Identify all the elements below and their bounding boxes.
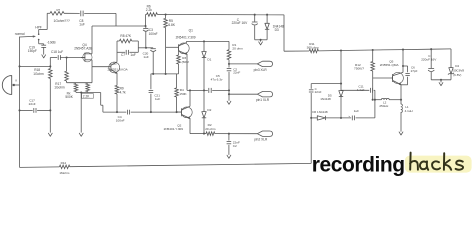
svg-text:150pF: 150pF <box>28 49 37 53</box>
resistor R3 150M <box>178 52 180 55</box>
wire: HPF branch down-left <box>46 13 48 29</box>
svg-text:D4: D4 <box>455 64 459 68</box>
svg-text:R8 47K: R8 47K <box>120 34 132 38</box>
svg-text:220uF 16V: 220uF 16V <box>421 57 437 61</box>
svg-text:6.8K: 6.8K <box>168 23 175 27</box>
svg-text:100nF: 100nF <box>116 118 125 122</box>
logo hacks text <box>409 153 411 170</box>
transistor Q5 2N5551 <box>392 72 403 83</box>
logo hacks highlight <box>405 156 472 173</box>
transistor Q4 2N5457 JFET <box>84 53 86 62</box>
wire: C4 feedback bus <box>103 111 126 113</box>
svg-text:HPF: HPF <box>35 25 42 29</box>
capacitor C8 1uF <box>80 11 82 17</box>
capacitor C18 1uF input coupling <box>49 58 51 67</box>
capacitor C4 100nF <box>126 110 128 115</box>
svg-text:50C6V8: 50C6V8 <box>453 69 464 73</box>
node R6/R5 junction <box>165 13 167 15</box>
wire: Q3 emitter down <box>116 73 118 85</box>
svg-text:Q1: Q1 <box>189 28 193 32</box>
svg-text:4.1uH: 4.1uH <box>405 109 413 113</box>
svg-text:(6.8V): (6.8V) <box>453 73 461 77</box>
wire: capsule signal vertical <box>19 37 21 168</box>
resistor R4 150K <box>176 74 178 88</box>
resistor R6 2.2k <box>145 15 147 27</box>
wire: D6 row <box>311 117 317 119</box>
capacitor C19 150pF pad <box>38 40 40 44</box>
wire: node to C3/C20 <box>138 47 153 49</box>
switch S1 normal/HPF <box>38 33 40 35</box>
wire: C/D3 ground node <box>255 39 267 41</box>
svg-text:2N5401.Y.309: 2N5401.Y.309 <box>164 127 184 131</box>
diode D1 <box>203 41 205 51</box>
wire: bottom ground rail <box>20 166 60 169</box>
svg-text:2N5551.8.KOA: 2N5551.8.KOA <box>108 68 128 72</box>
resistor R12 750K <box>372 50 374 62</box>
svg-text:1uF: 1uF <box>130 53 136 57</box>
svg-text:22nF: 22nF <box>233 71 240 75</box>
wire: pin3 lead <box>229 63 257 65</box>
wire: Q3 collector up <box>116 41 118 62</box>
svg-text:(50M: (50M <box>182 60 189 64</box>
svg-text:R?: R? <box>57 8 61 12</box>
wire: capsule bus to R18/C18 <box>20 65 51 67</box>
wire: pin1 lead <box>228 93 230 95</box>
inductor L1 4.1uH <box>400 100 402 104</box>
transistor Q2 2N5401 <box>181 107 192 118</box>
wire: source resistor top bus <box>67 82 92 84</box>
svg-text:1Gohm???: 1Gohm??? <box>54 19 70 23</box>
svg-text:22nF: 22nF <box>315 90 322 94</box>
ground right <box>439 83 443 86</box>
transistor Q1 2N5401 <box>178 43 189 54</box>
capacitor C12 1uF <box>351 116 353 121</box>
wire: Q2 emitter down <box>189 118 191 133</box>
svg-text:pin3 XLR: pin3 XLR <box>254 68 268 72</box>
svg-text:220uF 16V: 220uF 16V <box>232 21 248 25</box>
wire: phantom feed rail <box>284 50 309 52</box>
wire: base bias bus <box>151 73 179 75</box>
svg-text:C7: C7 <box>121 53 125 57</box>
zener D4 50C6V8 <box>450 49 452 68</box>
resistor R 2.2K <box>86 83 90 91</box>
wire: Q5 collector up <box>402 50 404 73</box>
resistor R5 6.8K <box>165 15 167 19</box>
resistor R9 4.7k <box>115 85 119 94</box>
capacitor C21 1uF <box>150 74 152 89</box>
wire: emitter/R2 wire <box>190 133 206 135</box>
wire: main V+ rail to right <box>166 14 284 16</box>
wire: Q5 emitter down to L1 <box>400 85 402 100</box>
capacitor C2 22nF upper <box>228 64 230 68</box>
ground below C/D3 <box>259 42 263 45</box>
node gate junction dot <box>66 56 68 58</box>
resistor R8 47K collector load <box>119 39 131 43</box>
resistor R2 20 ohm <box>206 132 215 136</box>
wire: main top rail from C8 to R6 node <box>84 12 116 14</box>
ground below source network <box>79 133 83 136</box>
wire: Q1 collector to output node <box>186 41 188 42</box>
svg-text:2N5457.A2B: 2N5457.A2B <box>74 47 92 51</box>
svg-text:D2: D2 <box>207 108 211 112</box>
diode D5 1N4148 <box>339 91 343 97</box>
wire: output ground row <box>431 79 451 81</box>
capacitor C 220uF 16V main filter <box>254 14 256 16</box>
svg-text:150K: 150K <box>179 92 187 96</box>
diode D6 1N4148 <box>317 116 325 120</box>
resistor R-HPF 1Gohm??? top-left <box>50 12 64 16</box>
wire: corner to 22nF cap line <box>311 83 341 85</box>
wire: source network bottom bus <box>75 91 77 94</box>
svg-text:22nF: 22nF <box>29 102 36 106</box>
wire: stepped wire to C4 bus <box>100 93 102 106</box>
svg-text:1uF: 1uF <box>79 23 85 27</box>
capacitor C17 22nF <box>33 108 35 113</box>
svg-text:1Gohm: 1Gohm <box>33 72 44 76</box>
resistor R17 1Gohm gate bias <box>66 58 68 72</box>
ground below pin1 node <box>227 101 231 104</box>
svg-text:47u 6.3v: 47u 6.3v <box>211 77 223 81</box>
capacitor C7 1uF parallel <box>117 51 125 53</box>
svg-text:K: K <box>16 79 18 83</box>
svg-text:250uH: 250uH <box>379 104 388 108</box>
ground below L1 <box>399 132 403 135</box>
svg-text:R14: R14 <box>61 161 67 165</box>
capacitor C11 4.4uF <box>341 89 369 91</box>
resistor Rx 500K <box>74 83 78 91</box>
wire: D5 branch vertical <box>340 51 342 91</box>
svg-text:20 ohm: 20 ohm <box>205 127 216 131</box>
svg-text:D6 1N4148: D6 1N4148 <box>312 110 328 114</box>
svg-text:D3: D3 <box>275 28 279 32</box>
svg-text:2N5551.QMA: 2N5551.QMA <box>380 63 400 67</box>
svg-text:2N5401.Y.309: 2N5401.Y.309 <box>176 35 196 39</box>
wire: vertical join C11/L2/C12 <box>374 90 376 118</box>
transistor Q3 2N5551 <box>109 62 120 73</box>
wire: Q2 collector up to C5 bus <box>189 90 191 106</box>
diode D3 1N4148 <box>266 14 268 16</box>
svg-text:1Mohm: 1Mohm <box>59 171 70 175</box>
diode D2 <box>203 90 205 111</box>
svg-text:recording: recording <box>312 153 405 176</box>
svg-text:1Gohm: 1Gohm <box>54 85 65 89</box>
resistor R18 1Gohm <box>49 66 51 68</box>
resistor R1 20 ohm <box>228 41 230 49</box>
capacitor C3 100nF <box>145 26 147 28</box>
svg-text:750K(?: 750K(? <box>354 67 364 71</box>
wire: C5 bus <box>187 89 208 91</box>
svg-text:1uF: 1uF <box>143 55 148 59</box>
node pin3 junction <box>228 63 230 65</box>
svg-text:pin2 XLR: pin2 XLR <box>254 138 268 142</box>
ground below R18 line <box>48 133 52 136</box>
capacitor C 220uF 16V output <box>430 49 432 68</box>
microphone capsule <box>2 76 11 95</box>
svg-text:1uF: 1uF <box>155 97 160 101</box>
connector pin1 XLR <box>257 92 272 97</box>
svg-text:4.7k: 4.7k <box>120 90 126 94</box>
connector pin3 XLR <box>257 61 272 66</box>
wire: C17 bus <box>20 109 33 111</box>
capacitor C20 1uF <box>152 47 154 49</box>
wire: Q1 emitter down to C5 bus <box>186 54 188 90</box>
svg-text:27pF: 27pF <box>411 69 418 73</box>
wire: Q4 source node <box>91 60 93 67</box>
svg-text:100nF: 100nF <box>149 32 158 36</box>
svg-text:pin1 XLR: pin1 XLR <box>256 98 270 102</box>
svg-text:2.2K: 2.2K <box>83 94 90 98</box>
inductor L2 250uH <box>381 98 389 99</box>
svg-text:Q3: Q3 <box>113 61 117 65</box>
connector pin2 XLR <box>257 131 272 136</box>
capacitor C6 27pF <box>403 65 408 67</box>
svg-text:500K: 500K <box>65 95 73 99</box>
svg-text:2.2k: 2.2k <box>146 8 152 12</box>
capacitor C5 47u 6.3v <box>208 88 210 93</box>
ground below lower C2 <box>227 155 231 158</box>
svg-text:C2: C2 <box>233 144 237 148</box>
ground below C19 <box>42 55 46 58</box>
svg-text:20 ohm: 20 ohm <box>232 47 243 51</box>
capacitor C2 22nF lower <box>228 134 230 141</box>
svg-text:1N4148: 1N4148 <box>320 97 331 101</box>
svg-text:4.4uF: 4.4uF <box>357 88 365 92</box>
svg-text:C18 1uF: C18 1uF <box>51 50 63 54</box>
resistor R11 300 ohm <box>309 49 318 53</box>
svg-text:-10dB: -10dB <box>47 41 57 45</box>
capacitor 22nF phantom filter <box>309 89 314 91</box>
wire: rail corner down to R11 <box>283 15 285 51</box>
svg-text:normal: normal <box>15 32 25 36</box>
svg-text:300 ohm: 300 ohm <box>307 45 319 49</box>
wire: L2 row <box>375 99 382 101</box>
resistor R14 1Mohm <box>59 165 69 169</box>
svg-text:D1: D1 <box>207 57 211 61</box>
svg-text:1uF: 1uF <box>354 109 359 113</box>
